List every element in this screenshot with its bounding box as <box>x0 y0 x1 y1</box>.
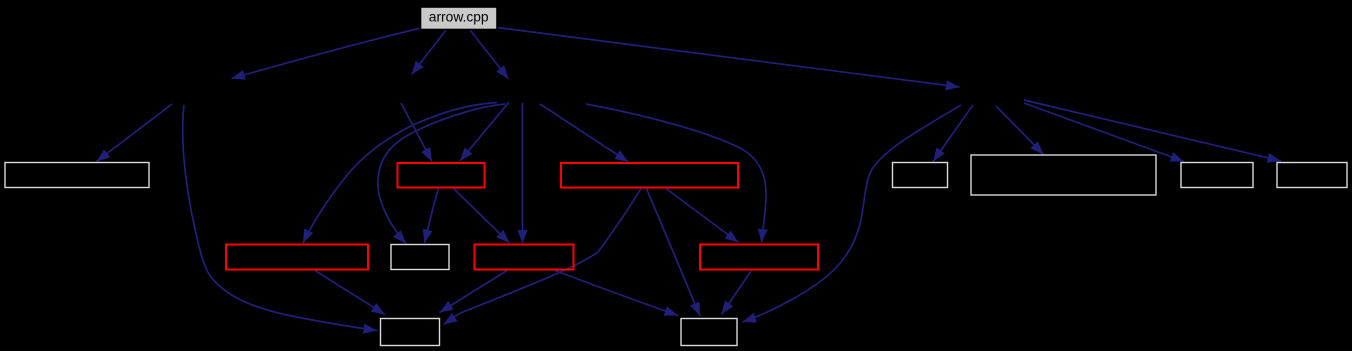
wire node I4 to box B6 <box>1024 103 1184 162</box>
wire box C1 to box D1 <box>315 271 385 315</box>
wire node I2 to box B2 <box>401 103 432 162</box>
box B6 (white) <box>1181 163 1253 188</box>
wire box B3 to box D2 <box>647 189 701 317</box>
wire node I4 to box D2 (big right curve) <box>743 105 962 322</box>
wire node I3 to box C1 (left sweep) <box>303 103 497 244</box>
box B1 (white) <box>5 163 149 188</box>
wire box B3 to box C4 <box>666 189 739 243</box>
wire box C3 to box D2 <box>555 271 678 316</box>
wire arrow.cpp to node I2 <box>412 30 447 75</box>
wire node I4 to box B4 <box>933 105 973 162</box>
wire node I3 to box C3 (vertical) <box>522 103 524 244</box>
box B4 (white) <box>893 163 948 188</box>
box C2 (white) <box>391 245 449 270</box>
box D2 (white) <box>681 319 737 346</box>
box B7 (white) <box>1277 163 1347 188</box>
wire node I4 to box B5 <box>996 106 1044 155</box>
wire box C4 to box D2 <box>722 271 752 315</box>
box D1 (white) <box>381 319 440 346</box>
wire box C3 to box D1 <box>440 271 508 313</box>
wire arrow.cpp to node I4 <box>498 28 960 88</box>
box B3 (red) <box>561 163 738 188</box>
wire box B2 to box C2 <box>425 189 439 244</box>
wire node I3 to box C4 (right sweep) <box>586 104 766 243</box>
box B2 (red) <box>398 163 485 188</box>
wire node I4 to box B7 <box>1024 100 1281 161</box>
box C4 (red) <box>700 245 818 270</box>
wire box B3 to box D1 (curve) <box>444 189 642 325</box>
svg-text:arrow.cpp: arrow.cpp <box>429 10 489 25</box>
wire node I3 to box B3 <box>540 104 629 162</box>
node arrow.cpp <box>421 7 498 30</box>
box B5 (white, two-line) <box>971 155 1156 195</box>
wire node I3 to box B2 <box>460 102 509 161</box>
box C3 (red) <box>475 245 574 270</box>
wire box B2 to box C3 <box>454 189 510 244</box>
wire node I1 to box D1 (long curve) <box>183 105 377 331</box>
wire node I3 to box C2 (loop around B2) <box>378 104 505 244</box>
wire node I1 to box B1 <box>97 104 173 162</box>
wire arrow.cpp to node I3 <box>470 30 509 79</box>
wire arrow.cpp to node I1 <box>232 29 420 79</box>
box C1 (red) <box>226 245 368 270</box>
